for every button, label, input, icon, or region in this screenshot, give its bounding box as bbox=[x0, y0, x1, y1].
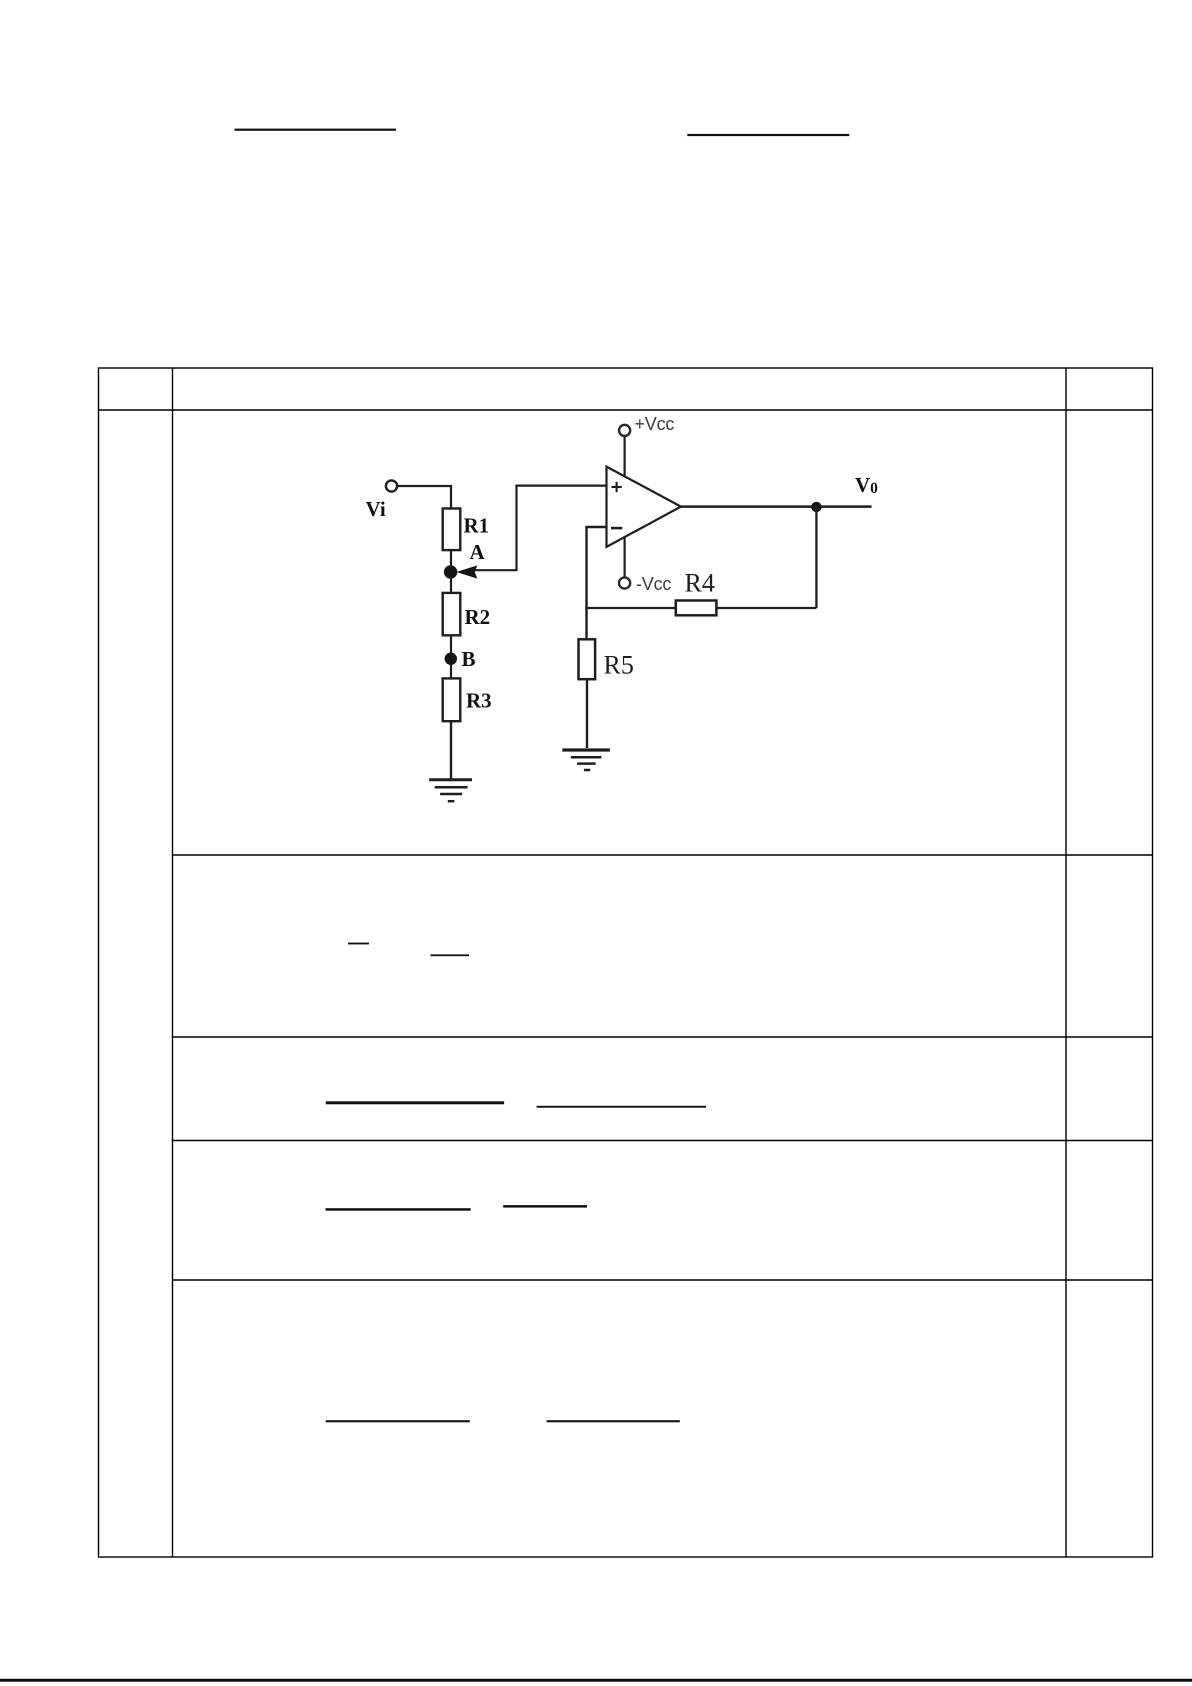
table outer border bbox=[99, 368, 1153, 1557]
op-amp plus input marking bbox=[612, 482, 622, 492]
table column divider right bbox=[1065, 368, 1067, 1557]
wire op-amp output bbox=[681, 505, 872, 508]
wire R3 to ground bbox=[450, 721, 452, 779]
svg-text:Vi: Vi bbox=[366, 497, 386, 521]
terminal Vi bbox=[386, 480, 397, 491]
bottom page rule bbox=[0, 1679, 1192, 1682]
table row line 2 bbox=[173, 1036, 1153, 1038]
wire +Vcc to op-amp bbox=[623, 436, 625, 476]
blank underline top-left bbox=[235, 129, 397, 131]
op-amp U1 bbox=[607, 467, 681, 547]
table column divider left bbox=[172, 368, 174, 1557]
wiper arrowhead at node A bbox=[459, 567, 476, 578]
wire op-amp to -Vcc bbox=[623, 538, 625, 577]
ground under R5 bbox=[562, 750, 610, 770]
table header bottom line bbox=[99, 409, 1153, 411]
svg-text:A: A bbox=[470, 540, 486, 564]
resistor R2 bbox=[443, 593, 461, 635]
node output junction bbox=[811, 502, 821, 512]
svg-text:B: B bbox=[462, 647, 476, 671]
node B bbox=[445, 653, 457, 665]
blank underline row4 b bbox=[503, 1205, 587, 1208]
terminal +Vcc bbox=[619, 425, 630, 436]
svg-text:R1: R1 bbox=[464, 514, 490, 538]
wire Vi to R1 top corner bbox=[398, 486, 452, 509]
ground under R3 bbox=[429, 780, 472, 801]
wire feedback left segment bbox=[587, 607, 676, 609]
op-amp minus input marking bbox=[611, 527, 622, 530]
svg-text:R3: R3 bbox=[466, 688, 492, 712]
blank underline row4 a bbox=[326, 1208, 471, 1211]
svg-text:-Vcc: -Vcc bbox=[636, 574, 671, 594]
resistor R4 bbox=[676, 601, 717, 616]
wire R5 to ground bbox=[586, 679, 588, 748]
resistor R5 bbox=[579, 639, 596, 679]
svg-text:R5: R5 bbox=[604, 651, 634, 680]
table row line 1 bbox=[173, 854, 1153, 856]
resistor R3 bbox=[443, 678, 461, 721]
blank underline top-right bbox=[687, 134, 849, 136]
node A bbox=[444, 565, 457, 578]
fraction bar row2 a bbox=[348, 943, 369, 945]
table row line 3 bbox=[173, 1140, 1153, 1142]
wire R2 to R3 bbox=[450, 635, 452, 678]
wire feedback right segment bbox=[716, 607, 816, 609]
svg-text:R2: R2 bbox=[465, 605, 491, 629]
blank underline row3 b bbox=[537, 1106, 706, 1108]
resistor R1 bbox=[443, 509, 461, 551]
fraction bar row2 b bbox=[431, 954, 470, 956]
blank underline row3 a bbox=[326, 1101, 504, 1104]
wire minus input down to R5 bbox=[587, 527, 607, 639]
terminal -Vcc bbox=[619, 577, 630, 588]
blank underline row5 a bbox=[326, 1420, 470, 1422]
table row line 4 bbox=[173, 1279, 1153, 1281]
svg-text:V0: V0 bbox=[855, 473, 878, 497]
svg-text:R4: R4 bbox=[685, 568, 715, 597]
blank underline row5 b bbox=[547, 1420, 680, 1422]
wire wiper to op-amp plus input bbox=[475, 486, 607, 571]
wire output down to feedback bbox=[815, 507, 817, 608]
svg-text:+Vcc: +Vcc bbox=[635, 414, 675, 434]
wire R1 to R2 bbox=[450, 550, 452, 593]
